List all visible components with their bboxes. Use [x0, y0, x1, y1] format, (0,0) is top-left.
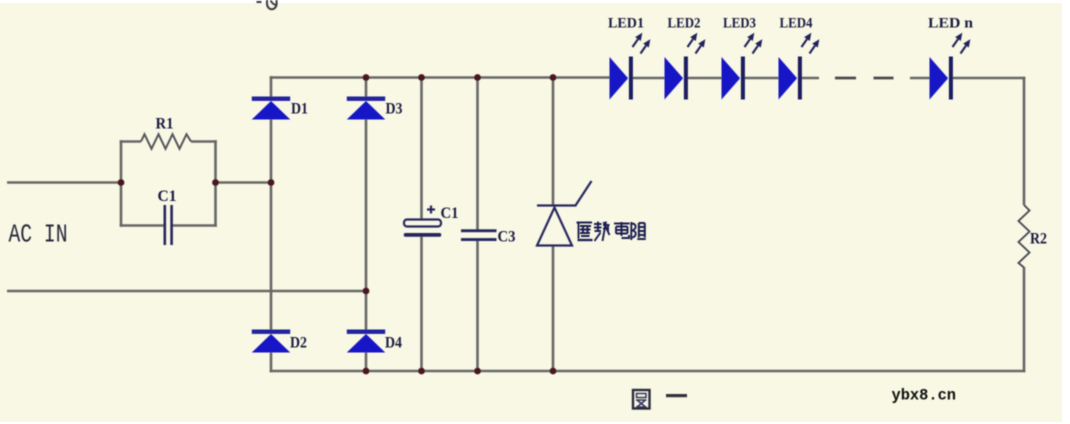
junction node (366,371) [363, 368, 370, 375]
wire dashed-continuation [835, 77, 894, 80]
diode D3 [347, 97, 385, 120]
wire bottom-rail [270, 370, 1026, 373]
svg-text:C3: C3 [498, 229, 516, 246]
varistor RV (breakover symbol) [537, 181, 592, 246]
wire RC-box-right-vertical [214, 140, 217, 227]
junction node (477.5,77.5) [474, 74, 481, 81]
wire AC-top-right [216, 181, 273, 184]
LED LED4 [779, 33, 820, 100]
wire RV-branch-top [552, 76, 555, 205]
wire RC-box-left-vertical [120, 140, 123, 227]
wire RC-box-bottom-right [172, 224, 217, 227]
svg-text:AC IN: AC IN [9, 220, 68, 250]
wire right-side-bottom [1023, 267, 1026, 372]
svg-text:LED4: LED4 [780, 16, 813, 32]
LED LED n [930, 33, 971, 100]
junction node (121,182.5) [118, 179, 125, 186]
svg-text:LED n: LED n [928, 16, 974, 32]
resistor R2 [1019, 205, 1030, 268]
wire C3-branch-bottom [476, 241, 479, 373]
svg-text:D4: D4 [385, 335, 402, 352]
diode D1 [252, 97, 290, 120]
wire AC-bottom [7, 290, 367, 293]
label figure 一 [666, 394, 687, 397]
svg-text:C1: C1 [158, 188, 177, 205]
svg-text:D1: D1 [291, 101, 308, 118]
junction node (366,291) [363, 288, 370, 295]
svg-text:C1: C1 [441, 205, 459, 222]
junction node (421.5,371) [418, 368, 425, 375]
LED LED2 [665, 33, 706, 100]
svg-text:LED3: LED3 [723, 16, 756, 32]
cropped text fragment top [257, 0, 277, 9]
svg-text:LED1: LED1 [608, 16, 644, 32]
wire RC-box-bottom-left [120, 224, 164, 227]
junction node (553,371) [550, 368, 557, 375]
LED LED3 [722, 33, 763, 100]
svg-text:R1: R1 [156, 116, 174, 133]
wire C1-branch-bottom [420, 236, 423, 372]
label figure 圖 [633, 390, 650, 409]
wire AC-top-left [7, 181, 121, 184]
junction node (215.5,182.5) [212, 179, 219, 186]
svg-text:D3: D3 [386, 101, 403, 118]
wire bridge-left-branch [270, 76, 273, 372]
wire top-rail [270, 76, 1026, 79]
wire C1-branch-top [420, 76, 423, 220]
diode D2 [252, 330, 290, 353]
junction node (553,77.5) [550, 74, 557, 81]
capacitor C1 (line filter) [165, 205, 172, 245]
svg-text:R2: R2 [1030, 231, 1047, 248]
wire bridge-right-branch [365, 76, 368, 372]
svg-text:LED2: LED2 [668, 16, 701, 32]
label RV chinese 壓敏電阻 [577, 222, 646, 242]
resistor R1 [141, 134, 191, 149]
svg-text:ybx8.cn: ybx8.cn [892, 387, 957, 405]
capacitor C3 [461, 229, 497, 241]
LED LED1 [610, 33, 651, 100]
wire RV-branch-bottom [552, 245, 555, 372]
wire right-side-top [1023, 77, 1026, 205]
diode D4 [347, 330, 385, 353]
wire C3-branch-top [476, 76, 479, 230]
junction node (477.5,371) [474, 368, 481, 375]
capacitor C1 electrolytic [404, 206, 441, 237]
wire RC-box-top-left [120, 140, 141, 143]
junction node (271,182.5) [268, 179, 275, 186]
svg-text:D2: D2 [290, 335, 307, 352]
junction node (421.5,77.5) [418, 74, 425, 81]
junction node (366,77.5) [363, 74, 370, 81]
wire RC-box-top-right [191, 140, 217, 143]
